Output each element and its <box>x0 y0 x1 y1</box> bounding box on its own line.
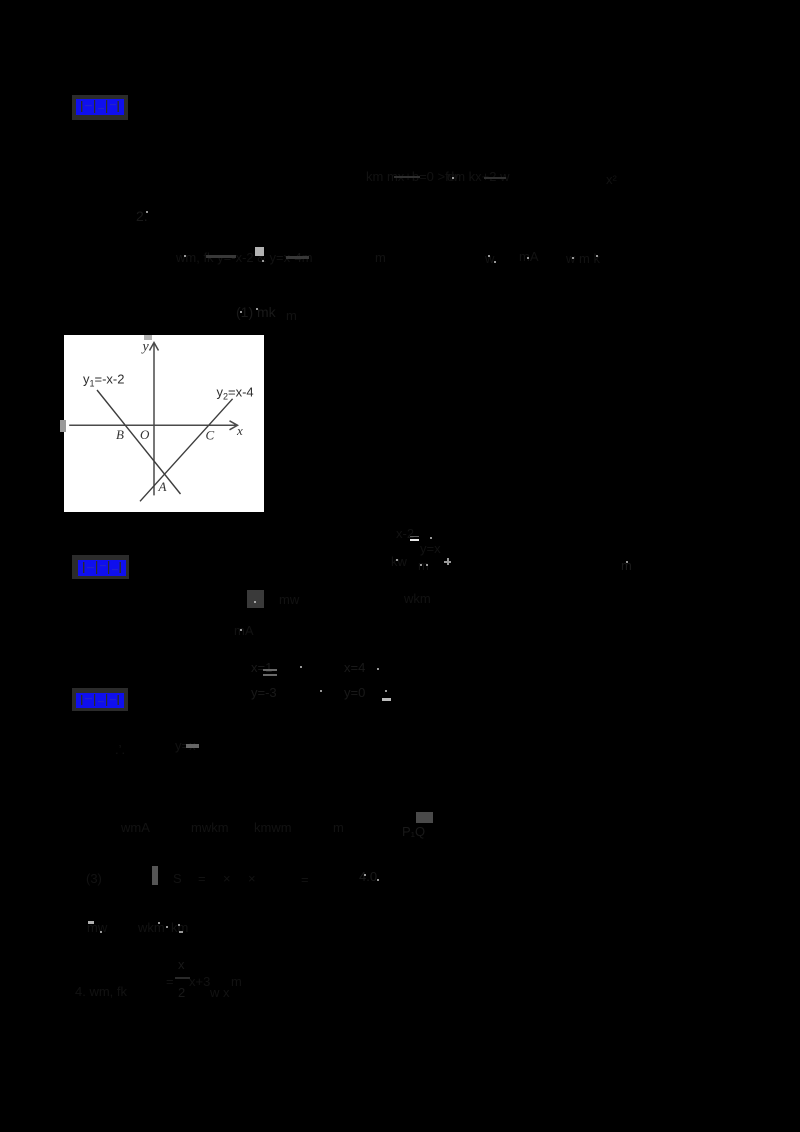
svg-text:x: x <box>236 423 243 438</box>
panel left edge tab <box>60 420 66 432</box>
problem line 2 segment e <box>566 251 600 266</box>
long line segments <box>121 820 150 835</box>
answer label box 2 <box>72 555 129 579</box>
problem line 1 mark c <box>606 172 617 187</box>
problem line 2 segment b <box>375 250 386 265</box>
problem line 2 segment d <box>519 249 539 264</box>
answer label box 1 <box>72 95 128 120</box>
svg-text:y: y <box>141 340 150 355</box>
panel top edge tab <box>144 335 152 340</box>
problem line 1 segment a <box>366 169 458 184</box>
step mark b <box>175 738 196 753</box>
answer row continuation a <box>391 554 407 569</box>
answer row plus mark <box>444 561 451 563</box>
item number 2 <box>136 208 148 224</box>
solution gray patch <box>247 590 264 608</box>
y-axis <box>153 343 155 495</box>
third line <box>87 920 107 935</box>
line y2=x-4 <box>140 399 233 502</box>
svg-text:A: A <box>158 479 167 494</box>
problem line 1 segment b <box>447 169 510 184</box>
solution marks row 1 <box>279 592 299 607</box>
svg-text:C: C <box>206 428 215 443</box>
step mark a <box>115 742 125 757</box>
problem line 2 segment c <box>485 251 494 266</box>
fraction line <box>178 957 185 972</box>
equation system fraction <box>396 526 414 541</box>
solution cluster 2 <box>344 660 365 675</box>
problem line 3 <box>236 304 276 320</box>
bottom row <box>75 984 127 999</box>
svg-text:O: O <box>140 427 150 442</box>
line y1=-x-2 <box>97 390 181 494</box>
solution cluster 1 <box>251 660 272 675</box>
answer mark right of box 2 <box>621 558 632 573</box>
svg-text:y2=x-4: y2=x-4 <box>217 385 254 402</box>
answer row continuation b <box>418 558 429 573</box>
solution mark A <box>234 623 254 638</box>
problem line 2 segment a <box>176 250 313 265</box>
svg-text:y1=-x-2: y1=-x-2 <box>83 372 125 389</box>
second long line <box>86 871 102 886</box>
answer label box 3 <box>72 688 128 711</box>
svg-text:B: B <box>116 427 124 442</box>
graph panel <box>64 335 264 512</box>
x-axis <box>69 424 236 426</box>
